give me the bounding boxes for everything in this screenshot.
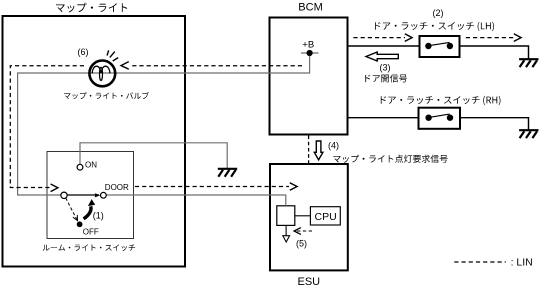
label door open signal (3) [365, 74, 407, 82]
dashed signal: BCM to bulb (LIN), right of bulb [130, 65, 302, 67]
wire: driver to CPU [295, 215, 311, 217]
label map light request signal (4) [333, 155, 447, 163]
label map light (title) [56, 3, 127, 13]
dashed signal: left of bulb down to switch [10, 66, 84, 188]
wire: LH latch switch to ground [460, 46, 529, 59]
svg-text:DOOR: DOOR [105, 183, 129, 192]
wire: DOOR contact to ESU lamp driver [107, 195, 286, 206]
door latch switch RH box [419, 108, 461, 129]
DOOR contact [101, 192, 107, 198]
wire: driver output stub [285, 225, 287, 235]
label map light bulb [64, 92, 149, 99]
lamp driver box [277, 206, 295, 226]
node +B junction dot [307, 50, 313, 56]
ON contact [77, 164, 83, 170]
LH switch contacts [425, 43, 431, 49]
ground (RH latch switch) [519, 130, 538, 138]
wire: RH latch switch to ground [460, 118, 529, 130]
svg-text:CPU: CPU [315, 211, 337, 223]
svg-text:(2): (2) [433, 8, 444, 18]
svg-text:(3): (3) [380, 63, 391, 73]
arrowhead right into switch pole [51, 184, 58, 192]
door latch switch LH box [420, 36, 460, 57]
RH switch blade [430, 114, 450, 117]
bold arrow (1) OFF to DOOR [84, 206, 91, 219]
arrowhead right after LH switch [514, 34, 521, 42]
svg-text:(1): (1) [93, 210, 104, 220]
bulb light rays [107, 50, 118, 61]
dashed: pole to OFF contact [66, 198, 78, 222]
arrowhead left at driver [294, 228, 301, 235]
map light bulb (6) [89, 61, 115, 87]
dashed signal: switch to ESU [135, 186, 289, 188]
svg-text:ESU: ESU [298, 276, 321, 288]
BCM box [270, 18, 348, 135]
dashed signal: LH switch to ground [466, 37, 514, 39]
CPU box U2 [310, 207, 340, 225]
svg-text:OFF: OFF [83, 227, 99, 236]
arrowhead filled at DOOR contact [95, 193, 100, 197]
legend dashed sample [454, 261, 506, 263]
LH switch blade [430, 42, 450, 45]
svg-text:(4): (4) [328, 141, 339, 151]
wire: BCM to RH latch switch [348, 117, 419, 119]
svg-text:(5): (5) [296, 238, 307, 248]
arrowhead left at bulb [121, 62, 129, 70]
bulb filament [92, 66, 110, 73]
switch pole contact [61, 192, 67, 198]
ground (LH latch switch) [519, 59, 538, 67]
svg-text:ON: ON [85, 160, 97, 169]
ESU box [270, 164, 348, 270]
label door latch switch LH [375, 22, 494, 31]
label room light switch [43, 244, 135, 251]
wire: pole to DOOR contact [68, 194, 100, 196]
label door latch switch RH [381, 96, 501, 105]
OFF contact dot [77, 221, 83, 227]
dashed signal: BCM to LH switch [353, 37, 405, 39]
wire: bulb feed from +B to room light switch [18, 53, 310, 195]
arrowhead right into ESU [290, 183, 297, 191]
wire: +B terminal bar [301, 52, 319, 54]
small arrowhead toward OFF [73, 215, 78, 221]
map light unit box [3, 16, 186, 267]
room light switch box [47, 152, 134, 239]
dashed signal: CPU command to driver (5) [297, 230, 314, 232]
ground (map light) [218, 169, 237, 177]
arrowhead right before LH switch [405, 34, 412, 42]
wire: BCM to LH latch switch [348, 45, 420, 47]
dashed signal: BCM down to ESU (LIN) [308, 136, 310, 164]
outline arrow (4) map light request, pointing down [314, 141, 323, 160]
open triangle arrow: driver output down [283, 236, 290, 242]
svg-text:+B: +B [302, 40, 314, 51]
wire: ON contact to ground [80, 143, 227, 168]
svg-text:BCM: BCM [298, 2, 322, 14]
RH switch contacts [425, 115, 431, 121]
outline arrow (3) door open signal, pointing left [366, 52, 398, 61]
svg-text:: LIN: : LIN [511, 257, 533, 269]
svg-text:(6): (6) [78, 47, 89, 57]
